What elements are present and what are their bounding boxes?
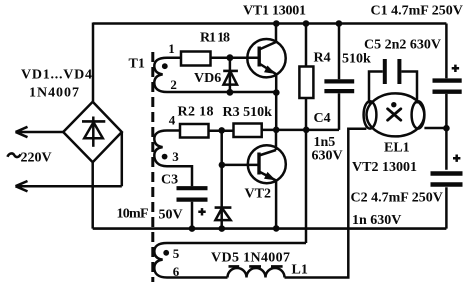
svg-text:1N4007: 1N4007 bbox=[29, 86, 79, 101]
wire VT2 collector up bbox=[275, 130, 278, 150]
node VD7 bottom rail bbox=[219, 225, 226, 232]
resistor R4 bbox=[299, 24, 313, 130]
svg-text:1n 630V: 1n 630V bbox=[352, 213, 401, 228]
capacitor C1 bbox=[433, 81, 462, 92]
wire top rail bbox=[93, 22, 446, 25]
wire R2-R3 bbox=[209, 129, 234, 132]
svg-text:50V: 50V bbox=[159, 208, 183, 223]
transistor VT1 bbox=[247, 39, 285, 77]
T1 winding 3 (pins 5-6) bbox=[154, 243, 306, 278]
plus sign C3 bbox=[198, 208, 205, 215]
svg-text:C4: C4 bbox=[314, 111, 331, 126]
lamp EL1 bbox=[364, 93, 425, 136]
wire right rail segments around C1 C2 bbox=[445, 24, 448, 229]
node C3 bottom rail bbox=[189, 225, 196, 232]
svg-text:10mF: 10mF bbox=[117, 207, 149, 222]
node VT1 emitter bbox=[273, 89, 280, 96]
wire R1 to VT1 base bbox=[211, 56, 259, 59]
svg-text:R3 510k: R3 510k bbox=[223, 105, 273, 120]
transformer T1 core dashed bbox=[151, 52, 154, 282]
svg-text:4: 4 bbox=[169, 113, 176, 128]
winding 3 polarity dot bbox=[163, 250, 169, 256]
bridge diode symbol bbox=[82, 117, 105, 147]
svg-text:C5 2n2 630V: C5 2n2 630V bbox=[364, 38, 441, 53]
svg-text:VT2: VT2 bbox=[245, 187, 271, 202]
capacitor C3 bbox=[177, 188, 208, 228]
node R1 VD6 bbox=[227, 54, 234, 61]
capacitor C2 bbox=[431, 174, 463, 185]
plus sign C1 bbox=[452, 65, 459, 72]
node VT2 base bbox=[219, 162, 226, 169]
svg-text:R4: R4 bbox=[314, 51, 331, 66]
svg-text:VD1...VD4: VD1...VD4 bbox=[21, 68, 92, 83]
svg-text:VT2 13001: VT2 13001 bbox=[352, 160, 417, 175]
bridge rectifier VD1-VD4 diamond bbox=[63, 102, 122, 162]
svg-text:VD6: VD6 bbox=[194, 71, 221, 86]
T1 winding 1 (pins 1-2) bbox=[154, 58, 276, 92]
svg-text:2: 2 bbox=[170, 77, 177, 92]
wire lamp left electrode down to L1 bbox=[285, 129, 367, 278]
diode VD7 bbox=[215, 208, 232, 221]
tilde of 220V bbox=[8, 153, 21, 157]
wire R3 to C4 bottom node bbox=[262, 129, 339, 132]
winding 1 polarity dot bbox=[162, 63, 168, 69]
resistor R2 bbox=[180, 124, 209, 138]
wire bridge bottom to bottom rail bbox=[91, 162, 94, 228]
resistor R1 bbox=[181, 52, 211, 66]
capacitor C4 bbox=[324, 24, 354, 130]
svg-text:C1 4.7mF 250V: C1 4.7mF 250V bbox=[371, 4, 463, 19]
T1 winding 2 (pins 4-3) bbox=[154, 131, 192, 187]
svg-text:1: 1 bbox=[168, 41, 175, 56]
svg-text:C2 4.7mF 250V: C2 4.7mF 250V bbox=[351, 191, 443, 206]
node top rail VT1 collector bbox=[273, 20, 280, 27]
svg-text:220V: 220V bbox=[21, 151, 52, 166]
svg-text:3: 3 bbox=[172, 149, 179, 164]
node VD6 bottom bbox=[227, 89, 234, 96]
wire node down to diode and VT2 base tap bbox=[220, 130, 223, 228]
plus sign C2 bbox=[453, 155, 460, 162]
node R4 bottom bbox=[303, 127, 310, 134]
AC input arrow bottom bbox=[16, 132, 122, 191]
inductor L1 bbox=[228, 268, 285, 278]
svg-text:R2 18: R2 18 bbox=[178, 105, 214, 120]
wire VT1 emitter down bbox=[275, 74, 278, 130]
svg-text:VD5 1N4007: VD5 1N4007 bbox=[211, 251, 290, 266]
svg-text:L1: L1 bbox=[292, 263, 308, 278]
node VT2 emitter rail bbox=[273, 225, 280, 232]
wire bottom rail bbox=[93, 227, 447, 230]
svg-text:R1 18: R1 18 bbox=[200, 31, 230, 46]
wire VT1 collector to top rail bbox=[275, 24, 278, 43]
svg-text:C3: C3 bbox=[161, 173, 178, 188]
svg-text:VT1 13001: VT1 13001 bbox=[243, 4, 306, 19]
winding 2 polarity dot bbox=[162, 154, 168, 160]
wire left vertical from rail to bridge bbox=[92, 23, 95, 104]
capacitor C5 bbox=[369, 59, 417, 104]
resistor R3 bbox=[234, 124, 262, 138]
wire lamp right electrode to right rail bbox=[424, 127, 446, 130]
node lamp right rail bbox=[443, 125, 450, 132]
AC input arrow top bbox=[16, 127, 64, 137]
diode VD6 bbox=[223, 58, 238, 93]
transistor VT2 bbox=[248, 145, 286, 183]
svg-text:T1: T1 bbox=[129, 57, 145, 72]
node top rail R4 bbox=[303, 20, 310, 27]
wire to VT2 base bbox=[222, 164, 258, 167]
L1 core dashes bbox=[229, 265, 283, 268]
node R2 R3 bbox=[218, 127, 225, 134]
node half bridge mid bbox=[273, 127, 280, 134]
wire R4 node down to winding5 wire bbox=[305, 130, 308, 243]
svg-text:6: 6 bbox=[173, 264, 180, 279]
svg-text:EL1: EL1 bbox=[384, 141, 410, 156]
node top rail C4 bbox=[336, 20, 343, 27]
svg-text:5: 5 bbox=[173, 246, 180, 261]
wire VT2 emitter to bottom rail bbox=[275, 181, 278, 229]
svg-text:630V: 630V bbox=[312, 149, 343, 164]
svg-text:510k: 510k bbox=[342, 52, 371, 67]
